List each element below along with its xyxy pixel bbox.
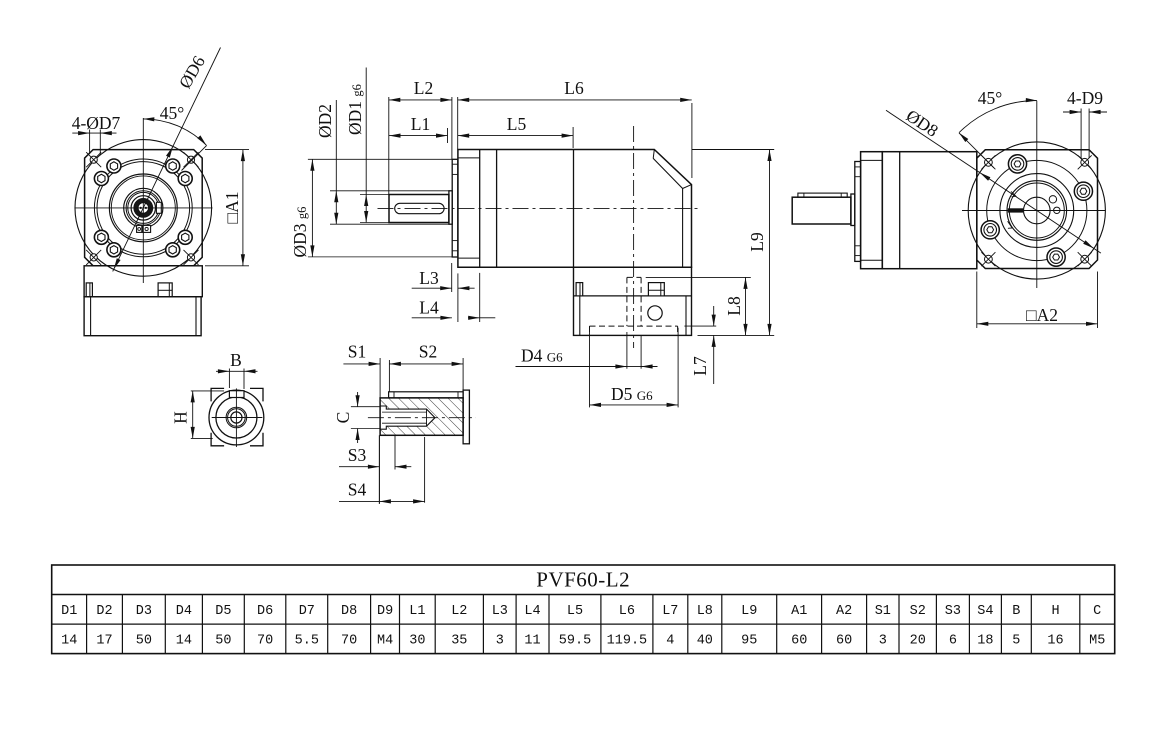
right view: body side outline [882,152,977,269]
dimension L6 line [458,99,692,101]
left view: boss circle inner [111,176,175,240]
dimension C line and arrows [357,392,359,407]
dimension 45° arc [143,119,206,145]
svg-text:14: 14 [176,633,192,648]
dimension L8 line [745,277,747,335]
dimension D5 line [590,404,679,406]
svg-text:L3: L3 [419,268,439,288]
shaft end view: thread outer circle [226,407,247,428]
left view: shaft center hole [138,203,149,214]
dimension A1 line [242,150,244,266]
dimension C extension lines [351,406,380,408]
right view: motor shaft bore D4 [1024,197,1051,224]
right view: socket screw 1 [1008,155,1026,173]
dimension L4 line [412,317,452,319]
svg-text:6: 6 [949,633,957,648]
svg-text:□A2: □A2 [1026,305,1058,325]
svg-text:14: 14 [61,633,77,648]
right view: clamp housing circle [1000,174,1074,248]
dimension S1 extension lines [379,358,381,398]
dimension L8 extension line [646,276,751,278]
svg-text:D2: D2 [96,604,112,619]
middle view: pilot boss D3 [452,159,458,257]
middle view: housing-adapter joint line L5 [573,150,575,268]
svg-text:D1: D1 [61,604,77,619]
right view: socket screw 2 [1074,182,1092,200]
svg-text:11: 11 [524,633,540,648]
left view: collar circle [126,191,160,225]
svg-text:D4: D4 [176,604,192,619]
dimension D4 extension lines [626,332,628,369]
svg-text:70: 70 [257,633,273,648]
svg-text:L9: L9 [747,232,767,252]
dimension S1 line [343,363,380,365]
svg-text:PVF60-L2: PVF60-L2 [536,568,630,592]
left view: adapter tab large [158,283,172,297]
dimension H extension lines [191,390,224,392]
right view: corner tapped hole D9 #2 [1081,158,1089,166]
svg-text:L9: L9 [741,604,757,619]
right view: collet inner ring [1009,183,1064,238]
dimension D2 line [335,100,337,224]
left view: keyway slot at 3 o'clock [156,202,161,213]
svg-text:D7: D7 [299,604,315,619]
shaft detail: shaft body rect [380,398,463,435]
svg-text:50: 50 [215,633,231,648]
right view: shoulder ring side [851,194,855,226]
left view: bearing circle [124,188,163,227]
shaft detail: bore white mask [380,406,435,429]
middle view: corner chamfer inner band [653,158,682,188]
svg-text:4: 4 [666,633,674,648]
dimension L3 line [412,287,452,289]
svg-text:L4: L4 [524,604,540,619]
middle view: lower adapter band line [574,295,692,297]
left view: shaft circle [131,196,155,220]
shaft end view: keyway slot [229,391,244,398]
dimension L9 line [769,150,771,336]
svg-text:L5: L5 [567,604,583,619]
middle view: hidden bore D4 dashed lines [626,277,628,326]
dimension A2 extension lines [976,272,978,329]
45 degree reference line through corner hole [182,145,207,170]
svg-text:50: 50 [136,633,152,648]
svg-text:L8: L8 [724,296,744,316]
dimension L2 line [389,99,452,101]
left view: clamp tab left with hole [137,225,142,232]
svg-text:ØD2: ØD2 [315,104,335,138]
dimension D1 extension lines [360,194,389,196]
right view: pilot boss side [855,162,861,262]
left view: recess circle D5 chamfer [97,162,190,255]
svg-text:L5: L5 [507,114,527,134]
left view: center cross dots [140,207,142,209]
svg-text:L2: L2 [451,604,467,619]
dimension S4 line [339,500,425,502]
dimension S3 line [339,466,379,468]
svg-text:59.5: 59.5 [559,633,591,648]
left view: corner hole D7 #1 [90,156,97,163]
middle view: flange plate rear line [479,150,481,268]
shaft end view: shaft circle [216,397,257,438]
svg-text:D6: D6 [257,604,273,619]
svg-text:3: 3 [879,633,887,648]
svg-text:60: 60 [836,633,852,648]
dimension L1 line [389,135,448,137]
middle view: front housing joint line [496,150,498,268]
dimension S3 extension lines [378,435,380,504]
middle view: pilot boss groove lines [452,163,458,165]
shaft detail: centerline [368,417,476,419]
left view: corner hole D7 #3 [90,254,97,261]
middle view: set screw hole circle [648,306,662,320]
dimension 4-D7 lines and arrows [72,132,116,134]
dimension L7 extension line [684,325,716,327]
dimension D5 extension lines [589,326,591,407]
dimension A1 extension lines [205,149,249,151]
svg-text:L6: L6 [564,78,584,98]
left view: socket screw 3 [107,243,121,257]
middle view: output shaft [389,195,449,223]
svg-text:S1: S1 [348,342,366,362]
left view: corner hole D7 #2 [187,156,194,163]
left view: vertical centerline [142,118,144,283]
right view: corner tapped hole D9 #3 [985,255,993,263]
svg-text:30: 30 [409,633,425,648]
right view: collet slit [1008,209,1022,212]
svg-text:60: 60 [791,633,807,648]
dimension D6 arrows on circle [166,146,173,157]
shaft end view: square section corners [211,388,224,401]
svg-text:S2: S2 [910,604,926,619]
right view: flange plate side [861,152,883,269]
dimension L2 extension lines [388,97,390,195]
svg-text:S3: S3 [348,445,367,465]
shaft end view: collar circle [209,390,264,445]
dimension L3 extension lines [451,263,453,292]
middle view: shaft shoulder ring [449,191,452,224]
dimension D4 line [516,366,627,368]
dimension D1 line [365,68,367,223]
dimension L6 extension lines [457,97,459,150]
svg-text:S4: S4 [348,480,367,500]
svg-text:S1: S1 [875,604,891,619]
svg-text:L1: L1 [411,114,430,134]
dimension D3 extension lines [308,158,452,160]
svg-text:D9: D9 [377,604,393,619]
left view: adapter upper band [84,266,202,297]
svg-text:4-ØD7: 4-ØD7 [72,113,121,133]
svg-text:L8: L8 [697,604,713,619]
svg-text:L7: L7 [662,604,678,619]
left view: corner hole D7 #4 [187,254,194,261]
svg-text:B: B [1012,604,1020,619]
table: column lines [86,595,88,654]
left view: socket screw 8 [178,172,192,186]
right view: vertical centerline [1036,101,1038,288]
shaft end view: crosshair [212,417,263,419]
svg-text:C: C [1093,604,1101,619]
left view: motor pilot circle D6 [75,140,212,277]
right view: collet notch lower [1008,221,1013,228]
right view: 45 degree reference line through corner hole [959,133,994,168]
dimension B line [216,370,258,372]
svg-text:H: H [1051,604,1059,619]
left view: adapter lower inner lines [90,297,92,336]
middle view: vertical motor axis centerline [633,126,635,348]
svg-text:70: 70 [341,633,357,648]
svg-text:M4: M4 [377,633,393,648]
right view: corner tapped hole D9 #4 [1081,255,1089,263]
table: row lines [52,594,1115,596]
left view: socket screw 7 [166,159,180,173]
svg-text:45°: 45° [160,103,185,123]
svg-text:20: 20 [910,633,926,648]
right view: small hole lower [1054,207,1060,213]
svg-text:5.5: 5.5 [295,633,319,648]
svg-text:H: H [171,411,191,424]
svg-text:L4: L4 [419,298,439,318]
right view: 45° arc [959,100,1037,132]
svg-text:D5: D5 [215,604,231,619]
shaft detail: key strip [389,392,464,398]
middle view: shaft keyway slot [395,203,444,213]
right view: horizontal centerline [962,210,1106,212]
svg-text:L6: L6 [619,604,635,619]
right view: pilot groove lines [855,166,861,168]
dimension 4-D9 lines [1080,109,1082,159]
left view: adapter lower block [84,297,201,336]
svg-text:5: 5 [1012,633,1020,648]
dimension D3 line [311,159,313,257]
middle view: adapter inner vertical lines [579,296,581,336]
right view: corner tapped hole D9 #1 [985,158,993,166]
svg-text:40: 40 [697,633,713,648]
shaft end view: thread circle [228,409,246,427]
svg-text:C: C [333,412,353,424]
svg-text:L2: L2 [414,78,433,98]
left view: socket screw 6 [107,159,121,173]
left view: socket screw 4 [94,230,108,244]
middle view: lower adapter outline [574,267,692,335]
dimension L5 line [458,135,573,137]
right view: motor boss circle D8 [968,142,1105,279]
dimension S4 extension line [424,437,426,503]
middle view: adapter tab small [576,283,583,296]
left view: horizontal centerline [75,207,213,209]
dimension ØD8 diagonal line [886,110,1101,253]
left view: collar inner circle [128,192,159,223]
left view: recess circle D5 outer [94,159,192,257]
right view: collet outer ring [1007,181,1067,241]
svg-text:95: 95 [741,633,757,648]
svg-text:45°: 45° [978,88,1003,108]
right view: body joint line [899,152,901,269]
right view: output shaft side [792,197,851,224]
svg-text:16: 16 [1047,633,1063,648]
dimension H line [192,391,194,439]
svg-text:S2: S2 [419,342,437,362]
right view: bolt recess circle [987,160,1087,260]
right view: key on shaft [798,193,847,197]
dimension L7 line and arrows [713,306,715,326]
svg-text:4-D9: 4-D9 [1067,88,1103,108]
svg-text:17: 17 [96,633,112,648]
dimension B extension lines [228,369,230,389]
svg-text:35: 35 [451,633,467,648]
left view: socket screw 1 [178,230,192,244]
left view: mounting flange square outline [85,150,203,266]
left view: socket screw 2 [166,243,180,257]
dimension L9 extension lines [692,149,774,151]
svg-text:119.5: 119.5 [607,633,648,648]
right view: socket screw 4 [981,221,999,239]
middle view: flange inner corner lines [458,157,480,159]
dimension A2 line [977,323,1098,325]
dimension D2 extension lines [330,190,450,192]
svg-text:D8: D8 [341,604,357,619]
svg-text:3: 3 [496,633,504,648]
right view: collet notch upper [1011,191,1016,196]
svg-text:L7: L7 [690,356,710,376]
middle view: adapter tab large [648,283,664,296]
svg-text:M5: M5 [1089,633,1105,648]
left view: boss circle outer [109,174,177,242]
dimension S2 line [389,363,463,365]
right view: socket screw 3 [1047,248,1065,266]
svg-text:□A1: □A1 [222,192,242,224]
table: outer border [52,565,1115,654]
svg-text:S3: S3 [945,604,961,619]
middle view: gearbox body outline [458,150,692,268]
left view: shaft hub dark ring [136,200,151,215]
shaft end view: tapped hole C [231,412,242,423]
svg-text:A1: A1 [791,604,807,619]
middle view: horizontal axis centerline [378,207,701,209]
right view: square flange face [977,150,1098,269]
shaft detail: tapped hole profile [380,406,435,429]
shaft detail: right flange bar [463,390,469,444]
svg-text:L3: L3 [492,604,508,619]
left view: adapter tab small [86,283,92,297]
right view: flange plate corner lines [861,159,883,161]
shaft detail: thread minor lines [382,411,427,413]
svg-text:A2: A2 [836,604,852,619]
right view: small hole upper [1049,196,1056,203]
dimension ØD6 diagonal line [113,48,221,272]
svg-text:B: B [230,350,242,370]
left view: clamp tab right with hole [143,225,151,232]
svg-text:D3: D3 [136,604,152,619]
left view: socket screw 5 [94,172,108,186]
middle view: hidden recess D5 dashed lines [590,325,678,327]
svg-text:L1: L1 [409,604,425,619]
svg-text:18: 18 [977,633,993,648]
svg-text:S4: S4 [977,604,993,619]
